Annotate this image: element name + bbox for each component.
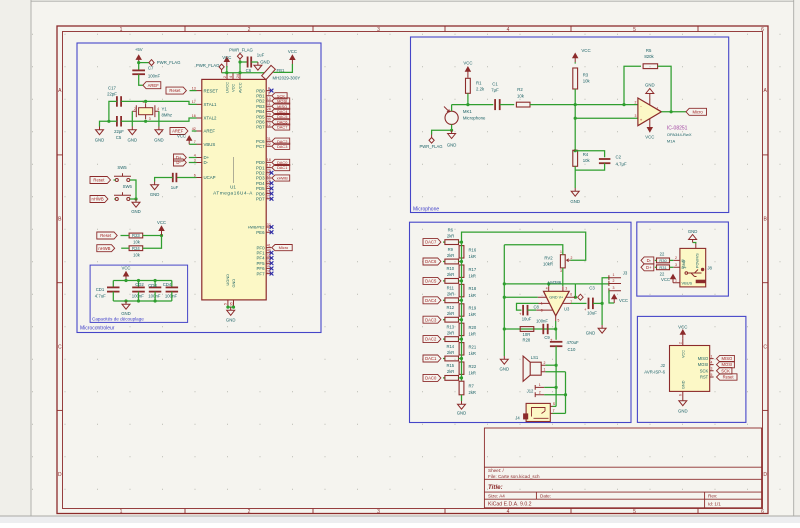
resistor RV2 10kR	[560, 255, 565, 268]
net label D+ usb	[641, 264, 654, 271]
wire to opamp plus	[575, 117, 638, 119]
svg-text:10uF: 10uF	[587, 311, 597, 316]
wire crystal pin4 down	[158, 111, 160, 126]
junction mic gnd	[450, 129, 453, 132]
connector J4 jack	[526, 403, 550, 421]
speaker LS1	[523, 356, 541, 381]
svg-text:LM386: LM386	[548, 280, 562, 285]
svg-text:GND V+: GND V+	[549, 296, 563, 300]
wire D+ tag	[655, 266, 657, 268]
wire R14 out	[459, 358, 462, 360]
wire mic top stub	[451, 105, 453, 112]
svg-text:C2: C2	[616, 155, 622, 160]
svg-text:VCC: VCC	[177, 134, 186, 139]
svg-text:2: 2	[134, 107, 136, 111]
svg-text:Id: 1/1: Id: 1/1	[708, 501, 721, 506]
svg-text:UCAP: UCAP	[204, 175, 216, 180]
ground C6	[254, 62, 262, 70]
svg-text:R24: R24	[132, 246, 140, 251]
wire j8 gnd jog	[693, 243, 696, 244]
svg-text:D+: D+	[646, 265, 652, 270]
ground switches	[132, 199, 140, 207]
svg-text:2: 2	[571, 256, 573, 260]
svg-text:R2: R2	[517, 87, 523, 92]
net label MISO isp	[717, 355, 735, 361]
junction vcc rail	[124, 279, 127, 282]
wire DAC1 to resistor	[443, 358, 445, 360]
net label DAC7 at pin PB7	[272, 124, 290, 130]
net label DAC2 at pin PC6	[272, 138, 290, 144]
svg-text:2kR: 2kR	[469, 390, 476, 395]
svg-text:6: 6	[570, 293, 572, 297]
svg-text:AVR-ISP-6: AVR-ISP-6	[644, 369, 665, 374]
svg-text:10kR: 10kR	[543, 262, 553, 267]
wire to C2 top	[575, 151, 604, 158]
svg-text:5: 5	[633, 27, 636, 33]
wire crystal pin2 down	[131, 111, 133, 126]
svg-text:Microphone: Microphone	[413, 207, 439, 213]
wire cd2 top	[138, 281, 140, 288]
svg-text:R11: R11	[447, 286, 455, 291]
junction rail uvcc	[225, 71, 228, 74]
net label MOSI isp	[717, 361, 735, 367]
svg-text:10R: 10R	[523, 332, 531, 337]
svg-text:VCC: VCC	[157, 220, 166, 225]
capacitor CD2	[132, 287, 145, 291]
net label SCK isp	[717, 368, 732, 374]
wire ladder rail	[461, 242, 463, 380]
ground J3	[598, 325, 606, 333]
resistor R31 22	[657, 265, 670, 270]
svg-text:POW/VS: POW/VS	[696, 253, 700, 268]
svg-text:DAC2: DAC2	[425, 337, 437, 342]
resistor R28 10R	[520, 327, 534, 332]
svg-text:VCC: VCC	[288, 49, 297, 54]
resistor R1 2.2k	[466, 78, 471, 93]
net label Reset at RESET pin	[166, 87, 186, 94]
svg-text:2: 2	[223, 76, 227, 78]
wire cd1 top	[112, 281, 114, 288]
svg-text:1kR: 1kR	[469, 332, 476, 337]
svg-text:GND: GND	[570, 199, 580, 204]
svg-text:VCC: VCC	[661, 277, 670, 282]
svg-text:DAC4: DAC4	[425, 298, 437, 303]
svg-text:10uF: 10uF	[522, 316, 532, 321]
svg-text:C8: C8	[534, 304, 540, 309]
svg-text:C3: C3	[589, 285, 595, 290]
svg-text:RV2: RV2	[544, 256, 553, 261]
wire out to zobel row	[555, 321, 557, 329]
resistor R12 2kR	[445, 317, 459, 322]
svg-text:GND: GND	[128, 137, 138, 142]
svg-text:4: 4	[157, 107, 159, 111]
junction ladder row 2	[460, 260, 463, 263]
svg-text:C7: C7	[148, 65, 154, 70]
svg-text:28: 28	[267, 107, 271, 111]
junction feedback	[622, 103, 625, 106]
svg-text:PE6: PE6	[256, 230, 265, 235]
resistor R9 2kR	[445, 259, 459, 264]
net label DAC5 at pin PB5	[272, 114, 290, 120]
net label AREF top	[143, 82, 161, 89]
net label DAC6 at pin PB6	[272, 119, 290, 125]
net label DAC1	[423, 355, 441, 362]
svg-text:MISO: MISO	[698, 356, 708, 361]
svg-text:R16: R16	[469, 247, 477, 252]
capacitor C7 100nF	[132, 70, 145, 74]
U1 left pins	[197, 91, 202, 178]
junction cd2 bottom	[137, 299, 140, 302]
svg-text:VBUS: VBUS	[204, 142, 216, 147]
svg-text:GND: GND	[121, 311, 131, 316]
svg-text:GND: GND	[645, 82, 655, 87]
power VCC above U1	[224, 57, 229, 66]
junction J12	[555, 386, 558, 389]
net label DAC4 at pin PB4	[272, 108, 290, 114]
net label SCK at pin PB1	[272, 93, 287, 99]
svg-text:1: 1	[657, 107, 659, 111]
wire R31 to pin	[670, 266, 674, 268]
net label xHWB at pin PD3	[272, 175, 290, 181]
no-connect PD5	[270, 187, 274, 191]
svg-text:42: 42	[192, 127, 196, 131]
svg-text:AVCC: AVCC	[237, 82, 242, 93]
junction R23 R24	[160, 234, 163, 237]
wire gnd to top pin	[504, 283, 575, 285]
svg-text:PC7: PC7	[256, 144, 265, 149]
no-connect PD4	[270, 181, 274, 185]
wire cd3 bottom	[154, 292, 156, 301]
wire R23 to vcc node	[143, 235, 162, 237]
svg-text:MK1: MK1	[463, 109, 472, 114]
svg-text:GND: GND	[500, 367, 510, 372]
svg-text:6: 6	[194, 173, 196, 177]
wire R5 to output	[658, 66, 671, 112]
svg-text:CD2: CD2	[135, 282, 144, 287]
wire R7 to gnd	[461, 395, 463, 401]
svg-text:3: 3	[613, 286, 615, 290]
svg-text:C: C	[58, 345, 62, 351]
svg-text:VCC: VCC	[121, 266, 130, 271]
svg-text:+: +	[640, 118, 643, 123]
net label D+ at pin	[174, 154, 187, 161]
connector J3	[609, 275, 621, 293]
wire opamp out	[661, 111, 686, 113]
wire reset to sw5	[114, 179, 116, 181]
svg-text:4: 4	[711, 360, 713, 364]
svg-text:Reset: Reset	[169, 88, 181, 93]
capacitor CD4	[166, 287, 179, 291]
svg-text:MISO: MISO	[722, 356, 733, 361]
svg-text:Capacités de découplage: Capacités de découplage	[92, 317, 144, 322]
svg-text:17: 17	[192, 100, 196, 104]
junction switches	[134, 197, 137, 200]
svg-text:R10: R10	[446, 266, 454, 271]
svg-text:10k: 10k	[133, 240, 141, 245]
svg-text:Title:: Title:	[488, 484, 503, 491]
svg-text:CD4: CD4	[163, 282, 172, 287]
resistor R3 10k	[573, 68, 578, 89]
svg-text:GND: GND	[95, 137, 105, 142]
svg-text:SCK: SCK	[700, 368, 709, 373]
ground decoupling	[122, 301, 130, 309]
svg-text:22pF: 22pF	[107, 91, 117, 96]
no-connect PF7	[270, 272, 274, 276]
svg-text:1: 1	[560, 250, 562, 254]
svg-text:1: 1	[544, 368, 546, 372]
svg-text:DAC3: DAC3	[277, 144, 288, 149]
svg-text:2kR: 2kR	[447, 350, 454, 355]
power flag PWR_FLAG mid	[237, 53, 242, 62]
svg-text:Date:: Date:	[540, 494, 551, 499]
svg-text:2kR: 2kR	[447, 311, 454, 316]
svg-text:1kR: 1kR	[469, 370, 476, 375]
svg-text:GND: GND	[681, 380, 685, 389]
junction rail 3	[503, 327, 506, 330]
J8 top pin to GND	[695, 244, 697, 249]
resistor R11 2kR	[445, 298, 459, 303]
junction ladder row 3	[460, 279, 463, 282]
svg-text:R1: R1	[476, 81, 482, 86]
wire fb1 to vcc	[273, 64, 292, 72]
wire lm gnd stub	[548, 284, 550, 286]
resistor R22 1kR	[459, 362, 464, 374]
svg-text:C10: C10	[568, 347, 576, 352]
wire to C10	[555, 329, 557, 340]
wire RV2 bottom to amp	[562, 268, 564, 286]
svg-text:3: 3	[377, 509, 380, 515]
capacitor C2 4.7uF	[599, 159, 611, 163]
resistor R14 2kR	[445, 356, 459, 361]
power flag PWR_FLAG aref	[149, 60, 154, 66]
junction pin6	[574, 296, 577, 299]
net label DAC7	[423, 239, 441, 246]
net label Reset at SW5	[90, 177, 111, 184]
svg-text:Reset: Reset	[93, 178, 105, 183]
wire feedback up	[624, 66, 641, 104]
ground isp	[679, 398, 687, 406]
svg-text:13: 13	[192, 86, 196, 90]
junction C3 J3	[601, 302, 604, 305]
wire vcc arrow stem	[226, 66, 228, 73]
svg-text:R19: R19	[469, 306, 477, 311]
resistor R15 2kR	[445, 376, 459, 381]
svg-text:GND: GND	[678, 408, 688, 413]
wire sw6 right	[130, 198, 136, 200]
wire mic top	[452, 104, 468, 106]
section box Microcontroleur	[77, 43, 321, 333]
svg-text:2: 2	[539, 390, 541, 394]
resistor R13 2kR	[445, 337, 459, 342]
svg-text:R17: R17	[469, 267, 477, 272]
svg-text:4: 4	[546, 287, 548, 291]
net label D- usb	[641, 257, 654, 264]
svg-text:10k: 10k	[517, 93, 525, 98]
svg-text:xHWB: xHWB	[277, 176, 289, 181]
wire zobel row	[504, 328, 556, 330]
svg-text:D: D	[58, 472, 62, 478]
wire ladder output to RV2	[462, 232, 586, 260]
wire cd2 bottom	[138, 292, 140, 301]
no-connect PF1	[270, 251, 274, 255]
no-connect PD6	[270, 192, 274, 196]
svg-text:nHWB: nHWB	[92, 197, 104, 202]
wire lm minus	[504, 296, 538, 298]
svg-text:4: 4	[507, 509, 510, 515]
junction J12 pin2	[564, 393, 567, 396]
junction cd3 top	[154, 279, 157, 282]
capacitor CD3	[149, 287, 162, 291]
svg-text:3: 3	[377, 27, 380, 33]
ground crystal right	[155, 127, 163, 135]
junction cd3 bottom	[154, 299, 157, 302]
svg-text:ATmega16U4-A: ATmega16U4-A	[213, 191, 253, 196]
svg-text:8Mhz: 8Mhz	[162, 113, 173, 118]
wire DAC5 to resistor	[443, 280, 445, 282]
junction rail flag	[238, 71, 241, 74]
svg-text:11: 11	[267, 102, 271, 106]
power VCC vbus	[187, 136, 192, 144]
bottom strip outside page	[0, 516, 800, 523]
wire vcc to R3	[574, 62, 576, 63]
resistor R30 22	[657, 258, 670, 263]
wire UCAP right	[176, 177, 196, 179]
svg-text:MOSI: MOSI	[722, 362, 733, 367]
resistor R6 2kR	[445, 240, 459, 245]
junction mic node	[466, 103, 469, 106]
svg-text:Sheet: /: Sheet: /	[488, 468, 505, 473]
wire vcc rail	[222, 72, 264, 74]
wire to gnd j3	[601, 303, 603, 325]
svg-text:SW6: SW6	[123, 184, 133, 189]
op-amp ground (top)	[646, 89, 654, 105]
svg-text:4: 4	[194, 153, 196, 157]
svg-text:R28: R28	[523, 337, 531, 342]
U1 graphic divider line	[233, 157, 235, 183]
wire J3 pin2	[575, 283, 609, 285]
junction bottom pins 2	[232, 306, 235, 309]
svg-text:GND: GND	[154, 137, 164, 142]
capacitor C17	[117, 96, 121, 107]
resistor R7 2kR	[459, 381, 464, 395]
junction bottom pins	[226, 306, 229, 309]
net label nHWB at R24	[97, 245, 115, 252]
svg-text:VCC: VCC	[645, 135, 654, 140]
ground crystal mid	[128, 127, 136, 135]
svg-text:6: 6	[761, 27, 764, 33]
svg-text:Micro: Micro	[279, 245, 289, 250]
wire AREF to pin	[192, 130, 197, 132]
svg-text:10k: 10k	[583, 158, 591, 163]
svg-text:DAC3: DAC3	[425, 317, 437, 322]
svg-text:J12: J12	[527, 389, 534, 394]
svg-text:MH2029-300Y: MH2029-300Y	[273, 76, 301, 81]
svg-text:1: 1	[120, 27, 123, 33]
U1 bottom ground pins	[228, 300, 234, 307]
power flag PWR_FLAG rail	[219, 64, 224, 73]
svg-text:PWR_FLAG: PWR_FLAG	[157, 60, 181, 65]
wire reset to R23	[121, 235, 130, 237]
junction cd2 top	[137, 279, 140, 282]
svg-text:C5: C5	[116, 135, 122, 140]
svg-text:File: Carte son.kicad_sch: File: Carte son.kicad_sch	[488, 474, 540, 479]
svg-text:GND: GND	[447, 142, 457, 147]
net label MOSI at pin PB2	[272, 98, 290, 104]
junction gnd rail	[124, 299, 127, 302]
junction ladder row 8	[460, 376, 463, 379]
junction +5V node	[137, 61, 140, 64]
connector J8 USB body	[680, 248, 706, 287]
svg-text:KiCad E.D.A. 9.0.2: KiCad E.D.A. 9.0.2	[488, 501, 532, 507]
svg-text:GND: GND	[457, 411, 467, 416]
wire Reset to pin13	[190, 90, 197, 92]
net label DAC5	[423, 277, 441, 284]
svg-text:R4: R4	[583, 152, 589, 157]
svg-text:3: 3	[149, 117, 151, 121]
resistor R23 10k	[129, 233, 143, 238]
svg-text:DAC7: DAC7	[277, 125, 288, 130]
net label DAC0 at pin PD0	[272, 159, 290, 165]
ground crystal left	[96, 127, 104, 135]
svg-text:J2: J2	[660, 363, 665, 368]
connector J2 AVR-ISP-6 body	[670, 346, 710, 392]
wire R30 to pin	[670, 259, 674, 261]
resistor R4 10k	[573, 150, 578, 166]
wire to pwr_flag	[432, 130, 452, 134]
svg-text:5: 5	[558, 319, 560, 323]
no-connect PE6	[270, 230, 274, 234]
title block	[484, 428, 761, 508]
svg-text:R9: R9	[448, 247, 454, 252]
no-connect PD7	[270, 197, 274, 201]
net label Micro output	[686, 108, 707, 115]
svg-text:UGND: UGND	[225, 274, 230, 286]
resistor R2 10k	[516, 102, 530, 107]
svg-text:5: 5	[633, 509, 636, 515]
svg-text:2kR: 2kR	[447, 330, 454, 335]
svg-text:16: 16	[192, 114, 196, 118]
svg-text:PD7: PD7	[256, 197, 265, 202]
wire XTAL2	[121, 118, 196, 121]
wire DAC6 to resistor	[443, 261, 445, 263]
wire DAC0 to resistor	[443, 377, 445, 379]
svg-text:10k: 10k	[133, 252, 141, 257]
svg-text:12: 12	[267, 123, 271, 127]
svg-text:31: 31	[267, 137, 271, 141]
svg-text:3: 3	[675, 263, 677, 267]
U1 top power pins	[227, 73, 240, 80]
net label AREF at pin 42	[170, 128, 188, 135]
svg-text:3: 3	[565, 287, 567, 291]
microphone MK1	[445, 111, 458, 124]
junction speaker	[555, 364, 558, 367]
wire to PWR_FLAG	[139, 62, 149, 64]
wire cd4 bottom	[171, 292, 173, 301]
svg-text:U3: U3	[564, 306, 570, 311]
wire R6 out	[459, 241, 462, 243]
ground below U1	[227, 307, 235, 315]
svg-text:R3: R3	[583, 73, 589, 78]
section box Capacites de decouplage	[90, 265, 188, 322]
svg-text:1kR: 1kR	[469, 293, 476, 298]
svg-text:2.2k: 2.2k	[476, 87, 485, 92]
svg-text:SCK: SCK	[721, 368, 730, 373]
svg-text:2: 2	[248, 509, 251, 515]
svg-text:RST: RST	[700, 375, 709, 380]
svg-text:Reset: Reset	[100, 233, 112, 238]
wire amp gnd rail	[503, 245, 505, 356]
svg-text:4,7µF: 4,7µF	[616, 161, 627, 166]
